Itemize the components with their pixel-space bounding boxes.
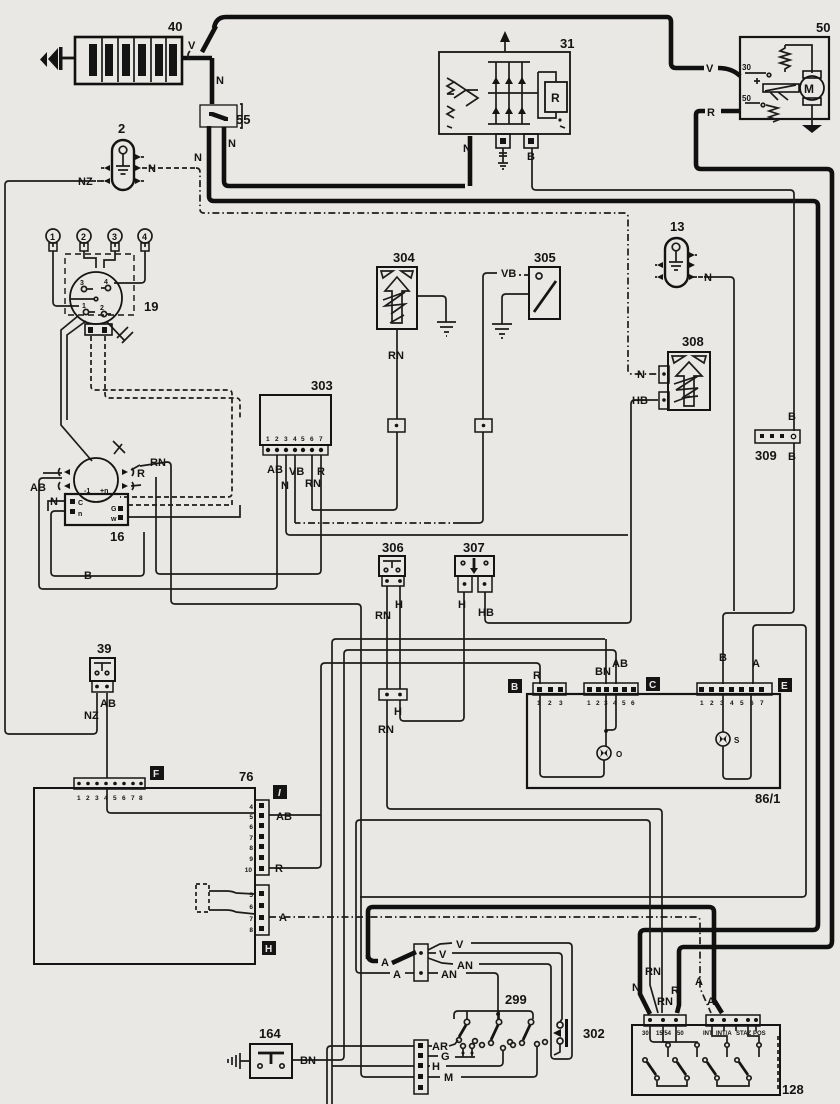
svg-text:6: 6	[249, 904, 253, 911]
svg-text:5: 5	[113, 795, 117, 802]
svg-text:RN: RN	[657, 996, 673, 1008]
svg-text:4: 4	[104, 279, 108, 286]
svg-text:AB: AB	[267, 464, 283, 476]
svg-text:8: 8	[139, 795, 143, 802]
svg-text:N: N	[216, 75, 224, 87]
svg-text:7: 7	[319, 436, 323, 443]
svg-text:2: 2	[710, 700, 714, 707]
svg-text:N: N	[50, 496, 58, 508]
svg-text:B: B	[527, 151, 535, 163]
svg-text:9: 9	[249, 856, 253, 863]
svg-text:n: n	[78, 511, 82, 518]
svg-text:B: B	[719, 652, 727, 664]
svg-text:RN: RN	[305, 478, 321, 490]
svg-text:A: A	[381, 957, 389, 969]
svg-text:R: R	[707, 107, 715, 119]
svg-text:1: 1	[82, 303, 86, 310]
svg-text:HB: HB	[478, 607, 494, 619]
svg-text:5: 5	[622, 700, 626, 707]
svg-text:305: 305	[534, 250, 556, 265]
svg-text:-1: -1	[84, 488, 90, 495]
svg-text:303: 303	[311, 378, 333, 393]
svg-text:4: 4	[730, 700, 734, 707]
svg-text:R: R	[533, 670, 541, 682]
svg-text:7: 7	[249, 835, 253, 842]
svg-text:4: 4	[142, 232, 147, 242]
svg-text:N: N	[704, 272, 712, 284]
svg-text:R: R	[137, 468, 145, 480]
svg-text:N: N	[637, 369, 645, 381]
svg-text:5: 5	[740, 700, 744, 707]
svg-text:AB: AB	[100, 698, 116, 710]
svg-text:N: N	[281, 480, 289, 492]
svg-text:7: 7	[131, 795, 135, 802]
svg-text:3: 3	[284, 436, 288, 443]
svg-text:7: 7	[760, 700, 764, 707]
svg-text:NZ: NZ	[78, 176, 93, 188]
svg-text:6: 6	[310, 436, 314, 443]
svg-text:M: M	[804, 82, 814, 96]
svg-text:A: A	[393, 969, 401, 981]
svg-text:3: 3	[95, 795, 99, 802]
svg-text:31: 31	[560, 36, 574, 51]
svg-text:BN: BN	[300, 1055, 316, 1067]
svg-text:R: R	[275, 863, 283, 875]
svg-text:30: 30	[642, 1031, 649, 1037]
svg-text:1: 1	[266, 436, 270, 443]
svg-text:40: 40	[168, 19, 182, 34]
svg-text:C: C	[649, 680, 656, 691]
svg-text:B: B	[788, 451, 796, 463]
svg-text:4: 4	[293, 436, 297, 443]
svg-text:50: 50	[816, 20, 830, 35]
svg-text:2: 2	[596, 700, 600, 707]
svg-text:RN: RN	[375, 610, 391, 622]
svg-text:10: 10	[245, 867, 253, 874]
svg-text:1: 1	[77, 795, 81, 802]
svg-text:H: H	[394, 706, 402, 718]
svg-text:I: I	[278, 788, 281, 799]
svg-text:2: 2	[86, 795, 90, 802]
svg-text:5: 5	[301, 436, 305, 443]
svg-text:R: R	[317, 466, 325, 478]
svg-text:16: 16	[110, 529, 124, 544]
svg-text:7: 7	[249, 916, 253, 923]
svg-text:3: 3	[559, 700, 563, 707]
svg-text:N: N	[463, 143, 471, 155]
svg-text:1: 1	[50, 232, 55, 242]
svg-text:H: H	[265, 944, 272, 955]
svg-text:R: R	[551, 91, 560, 105]
svg-text:4: 4	[249, 804, 253, 811]
svg-text:N: N	[228, 138, 236, 150]
svg-text:+n: +n	[100, 488, 108, 495]
svg-text:AB: AB	[612, 658, 628, 670]
svg-text:B: B	[788, 411, 796, 423]
svg-text:6: 6	[122, 795, 126, 802]
svg-text:A: A	[707, 996, 715, 1008]
svg-text:128: 128	[782, 1082, 804, 1097]
svg-text:O: O	[616, 750, 622, 759]
svg-text:50: 50	[677, 1031, 684, 1037]
svg-text:4: 4	[104, 795, 108, 802]
svg-text:307: 307	[463, 540, 485, 555]
svg-text:30: 30	[742, 63, 751, 72]
svg-text:R: R	[671, 985, 679, 997]
svg-text:86/1: 86/1	[755, 791, 780, 806]
svg-text:6: 6	[249, 824, 253, 831]
svg-text:BN: BN	[595, 666, 611, 678]
svg-text:2: 2	[275, 436, 279, 443]
svg-text:50: 50	[742, 94, 751, 103]
svg-text:2: 2	[81, 232, 86, 242]
svg-text:w: w	[110, 516, 117, 523]
svg-text:3: 3	[112, 232, 117, 242]
svg-text:39: 39	[97, 641, 111, 656]
svg-text:55: 55	[236, 112, 250, 127]
svg-text:N: N	[194, 152, 202, 164]
svg-text:13: 13	[670, 219, 684, 234]
svg-text:2: 2	[100, 305, 104, 312]
svg-text:A: A	[695, 976, 703, 988]
svg-text:6: 6	[631, 700, 635, 707]
svg-text:V: V	[188, 40, 196, 52]
svg-text:299: 299	[505, 992, 527, 1007]
svg-text:302: 302	[583, 1026, 605, 1041]
svg-text:E: E	[781, 681, 788, 692]
svg-text:304: 304	[393, 250, 415, 265]
svg-text:B: B	[511, 682, 518, 693]
svg-text:1: 1	[700, 700, 704, 707]
svg-text:AB: AB	[30, 482, 46, 494]
svg-text:164: 164	[259, 1026, 281, 1041]
svg-text:2: 2	[548, 700, 552, 707]
svg-text:AB: AB	[276, 811, 292, 823]
svg-text:C: C	[78, 500, 83, 507]
svg-text:AN: AN	[441, 969, 457, 981]
svg-text:G: G	[111, 506, 117, 513]
svg-text:1: 1	[587, 700, 591, 707]
svg-text:308: 308	[682, 334, 704, 349]
svg-text:RN: RN	[150, 457, 166, 469]
svg-text:76: 76	[239, 769, 253, 784]
svg-text:H: H	[458, 599, 466, 611]
svg-text:N: N	[148, 163, 156, 175]
svg-text:M: M	[444, 1072, 453, 1084]
svg-text:RN: RN	[378, 724, 394, 736]
svg-text:G: G	[441, 1051, 450, 1063]
svg-text:2: 2	[118, 121, 125, 136]
svg-text:NZ: NZ	[84, 710, 99, 722]
svg-text:AN: AN	[457, 960, 473, 972]
svg-text:RN: RN	[645, 966, 661, 978]
svg-text:H: H	[432, 1061, 440, 1073]
svg-text:H: H	[395, 599, 403, 611]
svg-text:3: 3	[80, 280, 84, 287]
svg-text:5: 5	[249, 814, 253, 821]
svg-text:A: A	[279, 912, 287, 924]
svg-text:S: S	[734, 736, 740, 745]
svg-text:V: V	[439, 949, 447, 961]
svg-text:A: A	[752, 658, 760, 670]
svg-text:306: 306	[382, 540, 404, 555]
svg-text:8: 8	[249, 927, 253, 934]
svg-text:HB: HB	[632, 395, 648, 407]
svg-text:309: 309	[755, 448, 777, 463]
svg-text:N: N	[632, 982, 640, 994]
svg-text:8: 8	[249, 845, 253, 852]
svg-text:F: F	[153, 769, 159, 780]
svg-text:V: V	[706, 63, 714, 75]
svg-text:VB: VB	[501, 268, 516, 280]
svg-text:RN: RN	[388, 350, 404, 362]
svg-text:B: B	[84, 570, 92, 582]
svg-text:VB: VB	[289, 466, 304, 478]
svg-text:19: 19	[144, 299, 158, 314]
svg-text:V: V	[456, 939, 464, 951]
